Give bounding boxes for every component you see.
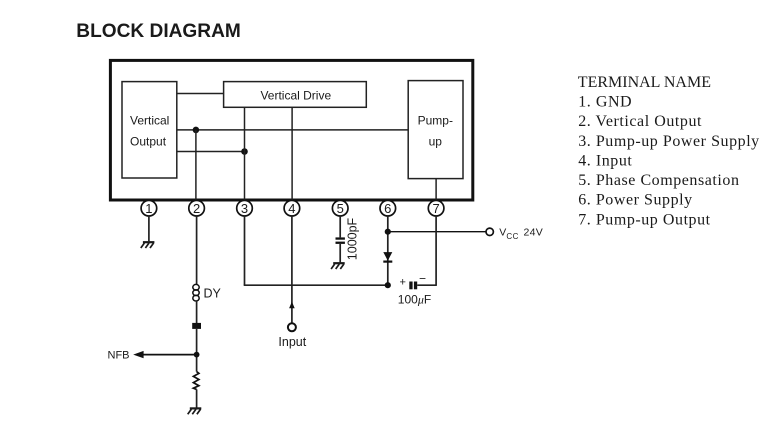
junction dot Vcc <box>385 229 391 235</box>
block Vertical Output <box>122 82 177 178</box>
svg-text:3: 3 <box>241 201 248 216</box>
svg-text:4: 4 <box>288 201 295 216</box>
wire pin7 internal <box>435 179 437 200</box>
pin 5 <box>332 200 348 216</box>
wire Vertical Output to Vertical Drive <box>177 93 224 95</box>
wire pin2 down <box>196 216 198 284</box>
resistor R (NFB) <box>193 372 199 390</box>
pin 3 <box>237 200 253 216</box>
wire Vcc <box>388 231 487 233</box>
svg-text:Vertical Drive: Vertical Drive <box>260 89 331 103</box>
svg-text:5. Phase Compensation: 5. Phase Compensation <box>578 172 739 189</box>
block Vertical Drive <box>224 82 367 108</box>
label minus <box>419 272 426 286</box>
svg-text:−: − <box>419 272 426 286</box>
wire pin2 internal <box>195 130 197 200</box>
ground NFB resistor <box>188 408 202 414</box>
wire cap to pin7 <box>417 284 436 286</box>
wire pin3 internal <box>244 107 246 200</box>
diode D1 <box>383 252 392 262</box>
arrowhead input <box>289 302 295 309</box>
wire pin4 internal <box>291 107 293 200</box>
svg-text:Input: Input <box>278 335 306 349</box>
terminal name list <box>578 74 760 228</box>
wire DY to bead <box>196 301 198 323</box>
block Pump-up <box>408 81 463 179</box>
ground pin1 <box>141 242 155 248</box>
svg-text:up: up <box>429 135 443 149</box>
label plus <box>400 277 406 289</box>
svg-text:1: 1 <box>145 201 152 216</box>
svg-text:Vertical: Vertical <box>130 114 169 128</box>
pin 6 <box>380 200 396 216</box>
wire NFB arrow <box>133 351 196 358</box>
ferrite bead (black box) <box>192 323 201 329</box>
svg-text:2. Vertical Output: 2. Vertical Output <box>578 113 702 130</box>
svg-text:Output: Output <box>130 135 167 149</box>
wire pin3 down <box>244 216 246 285</box>
svg-text:5: 5 <box>337 201 344 216</box>
svg-text:Pump-: Pump- <box>418 114 453 128</box>
label 100uF <box>398 293 431 307</box>
svg-text:V: V <box>499 227 506 239</box>
svg-text:1. GND: 1. GND <box>578 94 632 111</box>
label DY <box>204 287 222 301</box>
wire pin7 down <box>435 216 437 286</box>
svg-text:4. Input: 4. Input <box>578 153 632 170</box>
svg-text:TERMINAL NAME: TERMINAL NAME <box>578 74 711 91</box>
inductor DY <box>193 284 199 301</box>
svg-text:2: 2 <box>193 201 200 216</box>
pin 7 <box>428 200 444 216</box>
wire bus horizontal <box>244 284 388 286</box>
svg-text:3. Pump-up Power Supply: 3. Pump-up Power Supply <box>578 133 760 150</box>
junction dot pin3 line <box>241 148 248 155</box>
wire pin1 to ground <box>148 216 150 241</box>
capacitor C 100uF plates <box>409 282 417 290</box>
svg-text:CC: CC <box>506 232 518 241</box>
label Input <box>278 335 306 349</box>
title BLOCK DIAGRAM <box>76 20 241 42</box>
pin 1 <box>141 200 157 216</box>
wire pin4 down <box>291 216 293 323</box>
pin 4 <box>284 200 300 216</box>
svg-text:1000pF: 1000pF <box>346 217 360 260</box>
label 1000pF <box>346 217 360 260</box>
svg-text:24V: 24V <box>524 227 544 239</box>
svg-text:BLOCK DIAGRAM: BLOCK DIAGRAM <box>76 20 241 42</box>
wire Vertical Output to Pump-up <box>177 129 408 131</box>
svg-text:+: + <box>400 277 406 289</box>
pin 2 <box>189 200 205 216</box>
wire pin6 down <box>387 216 389 285</box>
svg-text:100μF: 100μF <box>398 293 431 307</box>
ground 1000pF <box>331 263 345 269</box>
svg-text:DY: DY <box>204 287 222 301</box>
junction dot NFB <box>194 352 200 358</box>
wire Vertical Output lower stub <box>177 151 245 153</box>
wire pin5 down <box>339 216 341 237</box>
junction dot pin2 line <box>193 127 200 134</box>
wire resistor to ground <box>196 389 198 407</box>
label Vcc 24V <box>499 227 543 241</box>
svg-text:7. Pump-up Output: 7. Pump-up Output <box>578 211 710 228</box>
wire bead to junction <box>196 329 198 372</box>
terminal Vcc <box>486 228 493 235</box>
label NFB <box>108 350 130 362</box>
terminal Input <box>288 323 296 331</box>
svg-text:6: 6 <box>384 201 391 216</box>
svg-text:NFB: NFB <box>108 350 130 362</box>
capacitor C 1000pF <box>336 237 345 244</box>
svg-text:7: 7 <box>432 201 439 216</box>
wire cap to ground <box>339 244 341 263</box>
svg-text:6. Power Supply: 6. Power Supply <box>578 192 692 209</box>
junction dot bus <box>385 282 391 288</box>
IC outline <box>110 60 472 200</box>
